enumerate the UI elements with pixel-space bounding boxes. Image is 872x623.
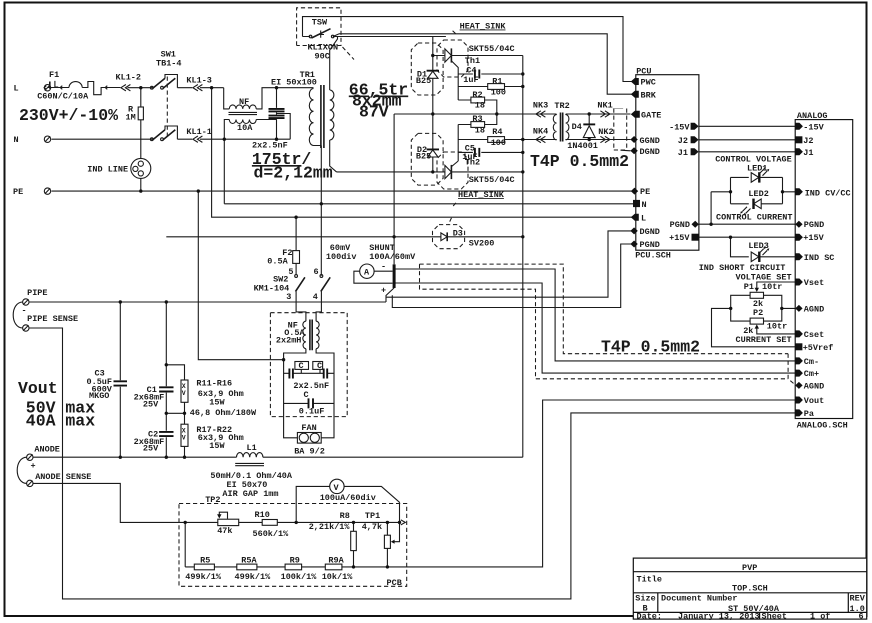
- svg-text:25V: 25V: [143, 443, 159, 453]
- svg-text:PIPE SENSE: PIPE SENSE: [27, 314, 78, 324]
- svg-text:NK3: NK3: [533, 101, 548, 111]
- svg-text:HEAT_SINK: HEAT_SINK: [458, 190, 505, 200]
- svg-text:CURRENT SET: CURRENT SET: [736, 335, 792, 345]
- svg-text:KL1-2: KL1-2: [116, 73, 142, 83]
- svg-text:PE: PE: [13, 187, 23, 197]
- svg-text:P1: P1: [744, 282, 754, 292]
- svg-text:IND CV/CC: IND CV/CC: [805, 188, 851, 198]
- svg-text:2x2mH: 2x2mH: [276, 336, 302, 346]
- svg-text:R2: R2: [472, 90, 482, 100]
- svg-text:BA 9/2: BA 9/2: [294, 447, 325, 457]
- svg-text:ANODE SENSE: ANODE SENSE: [35, 472, 91, 482]
- svg-text:TP2: TP2: [205, 495, 220, 505]
- svg-text:B25: B25: [416, 152, 431, 162]
- svg-text:R5A: R5A: [241, 555, 257, 565]
- svg-text:PE: PE: [640, 187, 650, 197]
- svg-text:ANALOG.SCH: ANALOG.SCH: [797, 421, 848, 431]
- svg-text:47k: 47k: [217, 526, 232, 536]
- svg-text:P2: P2: [753, 308, 763, 318]
- svg-text:1N4001: 1N4001: [567, 141, 598, 151]
- svg-text:J2: J2: [803, 136, 813, 146]
- svg-text:NK1: NK1: [597, 101, 612, 111]
- svg-text:10tr: 10tr: [767, 322, 787, 332]
- svg-text:V: V: [182, 435, 186, 442]
- svg-text:R10: R10: [255, 510, 270, 520]
- svg-text:R4: R4: [492, 127, 502, 137]
- svg-text:Pa: Pa: [804, 409, 814, 419]
- svg-text:R5: R5: [200, 555, 210, 565]
- svg-text:R9A: R9A: [328, 555, 344, 565]
- svg-text:-15V: -15V: [803, 122, 824, 132]
- svg-text:5: 5: [288, 267, 293, 277]
- svg-text:0.1uF: 0.1uF: [299, 407, 325, 417]
- svg-text:100uA/60div: 100uA/60div: [320, 493, 376, 503]
- svg-text:PCB: PCB: [387, 578, 402, 588]
- svg-text:V: V: [334, 483, 340, 493]
- svg-text:VOLTAGE SET: VOLTAGE SET: [736, 272, 792, 282]
- svg-text:Vout: Vout: [18, 379, 58, 398]
- svg-text:D4: D4: [572, 122, 582, 132]
- svg-text:REV: REV: [850, 594, 866, 604]
- svg-text:X: X: [182, 383, 186, 390]
- svg-text:+: +: [31, 461, 36, 471]
- svg-text:+15V: +15V: [669, 233, 690, 243]
- svg-text:CONTROL CURRENT: CONTROL CURRENT: [716, 212, 793, 222]
- svg-text:-: -: [22, 306, 27, 316]
- svg-text:SKT55/04C: SKT55/04C: [469, 44, 515, 54]
- svg-text:DGND: DGND: [640, 147, 660, 157]
- svg-text:KL1-3: KL1-3: [186, 76, 212, 86]
- svg-text:EI 50x100: EI 50x100: [271, 78, 317, 88]
- svg-text:__: __: [612, 101, 624, 111]
- svg-text:KM1-104: KM1-104: [254, 284, 290, 294]
- svg-text:IND SC: IND SC: [804, 253, 835, 263]
- svg-text:0.5A: 0.5A: [267, 256, 288, 266]
- svg-text:D3: D3: [453, 229, 463, 239]
- svg-text:DGND: DGND: [640, 227, 660, 237]
- svg-text:J1: J1: [803, 148, 813, 158]
- svg-text:KL1-1: KL1-1: [186, 127, 212, 137]
- svg-text:L1: L1: [247, 443, 257, 453]
- svg-text:NK2: NK2: [598, 127, 613, 137]
- svg-text:ANALOG: ANALOG: [797, 111, 828, 121]
- svg-text:X: X: [182, 428, 186, 435]
- svg-text:R3: R3: [472, 114, 482, 124]
- svg-text:N: N: [642, 200, 647, 210]
- svg-text:1uF: 1uF: [463, 75, 478, 85]
- svg-text:3: 3: [286, 292, 291, 302]
- svg-text:R1: R1: [492, 77, 502, 87]
- svg-text:25V: 25V: [143, 399, 159, 409]
- svg-text:d=2,12mm: d=2,12mm: [254, 164, 333, 183]
- svg-text:NK4: NK4: [533, 127, 548, 137]
- svg-text:ANODE: ANODE: [34, 445, 60, 455]
- svg-text:PGND: PGND: [804, 220, 824, 230]
- svg-text:LED3: LED3: [748, 241, 768, 251]
- svg-text:Document Number: Document Number: [661, 594, 738, 604]
- svg-text:GGND: GGND: [640, 136, 660, 146]
- svg-text:C: C: [317, 361, 322, 371]
- svg-text:PCU.SCH: PCU.SCH: [635, 251, 671, 261]
- svg-text:90C: 90C: [315, 52, 330, 62]
- svg-text:L: L: [14, 84, 19, 94]
- svg-text:TR2: TR2: [554, 101, 569, 111]
- svg-text:1uF: 1uF: [462, 152, 477, 162]
- svg-text:NF: NF: [239, 97, 249, 107]
- svg-text:FAN: FAN: [301, 423, 316, 433]
- svg-text:C60N/C/10A: C60N/C/10A: [37, 92, 89, 102]
- svg-text:499k/1%: 499k/1%: [185, 572, 222, 582]
- svg-text:HEAT_SINK: HEAT_SINK: [460, 22, 507, 32]
- svg-text:100: 100: [491, 88, 506, 98]
- svg-text:100div: 100div: [326, 252, 357, 262]
- svg-text:TSW: TSW: [312, 18, 328, 28]
- svg-text:C: C: [299, 361, 304, 371]
- svg-text:R8: R8: [340, 511, 350, 521]
- svg-text:2x2.5nF: 2x2.5nF: [293, 381, 329, 391]
- svg-text:18: 18: [475, 101, 485, 111]
- svg-text:SV200: SV200: [469, 239, 495, 249]
- svg-text:87V: 87V: [359, 103, 389, 122]
- svg-text:15W: 15W: [209, 398, 225, 408]
- svg-text:10k/1%: 10k/1%: [322, 572, 354, 582]
- svg-text:Cset: Cset: [804, 330, 824, 340]
- svg-text:AGND: AGND: [804, 381, 824, 391]
- svg-text:4: 4: [313, 292, 318, 302]
- svg-text:Vout: Vout: [804, 396, 824, 406]
- svg-text:-: -: [381, 262, 386, 272]
- svg-text:F1: F1: [49, 70, 59, 80]
- svg-text:J1: J1: [678, 148, 688, 158]
- svg-text:Sheet: Sheet: [762, 611, 788, 621]
- svg-text:PGND: PGND: [670, 220, 690, 230]
- svg-text:PVP: PVP: [742, 563, 757, 573]
- svg-text:230V+/-10%: 230V+/-10%: [19, 106, 118, 125]
- svg-text:2x2.5nF: 2x2.5nF: [252, 141, 288, 151]
- svg-text:January 13, 2013: January 13, 2013: [678, 611, 760, 621]
- svg-text:2,21k/1%: 2,21k/1%: [309, 522, 351, 532]
- svg-text:TB1-4: TB1-4: [156, 59, 182, 69]
- svg-text:Cm-: Cm-: [804, 357, 819, 367]
- svg-text:-15V: -15V: [669, 122, 690, 132]
- svg-text:Vset: Vset: [804, 278, 824, 288]
- svg-text:18: 18: [475, 126, 485, 136]
- svg-text:N: N: [14, 135, 19, 145]
- svg-text:Th1: Th1: [465, 56, 480, 66]
- svg-text:R9: R9: [290, 555, 300, 565]
- svg-text:PWC: PWC: [641, 78, 656, 88]
- svg-text:BRK: BRK: [641, 91, 657, 101]
- svg-text:B25: B25: [416, 76, 431, 86]
- svg-text:Title: Title: [637, 574, 663, 584]
- svg-text:4,7k: 4,7k: [362, 522, 382, 532]
- svg-text:Date:: Date:: [637, 611, 663, 621]
- svg-text:V: V: [182, 390, 186, 397]
- svg-text:560k/1%: 560k/1%: [253, 529, 290, 539]
- svg-text:TOP.SCH: TOP.SCH: [732, 583, 768, 593]
- svg-text:T4P 0.5mm2: T4P 0.5mm2: [530, 152, 629, 171]
- svg-text:LED1: LED1: [747, 164, 767, 174]
- svg-text:IND LINE: IND LINE: [87, 165, 128, 175]
- svg-text:AGND: AGND: [804, 304, 824, 314]
- svg-text:T4P 0.5mm2: T4P 0.5mm2: [601, 338, 700, 357]
- svg-text:A: A: [364, 268, 370, 278]
- svg-text:R11-R16: R11-R16: [196, 378, 232, 388]
- svg-text:TP1: TP1: [365, 511, 380, 521]
- svg-text:100k/1%: 100k/1%: [281, 572, 318, 582]
- svg-text:LED2: LED2: [748, 189, 768, 199]
- svg-text:AIR GAP 1mm: AIR GAP 1mm: [222, 489, 278, 499]
- svg-text:100: 100: [491, 138, 506, 148]
- svg-text:15W: 15W: [209, 441, 225, 451]
- svg-text:C4: C4: [466, 66, 476, 76]
- svg-text:IND SHORT CIRCUIT: IND SHORT CIRCUIT: [699, 263, 786, 273]
- svg-text:+5Vref: +5Vref: [803, 343, 834, 353]
- svg-text:10A: 10A: [237, 123, 253, 133]
- svg-text:C: C: [304, 390, 309, 400]
- svg-text:Cm+: Cm+: [804, 369, 819, 379]
- svg-text:499k/1%: 499k/1%: [235, 572, 272, 582]
- svg-text:1 of: 1 of: [810, 611, 830, 621]
- svg-text:+15V: +15V: [803, 233, 824, 243]
- svg-text:+: +: [381, 286, 386, 296]
- svg-text:100A/60mV: 100A/60mV: [369, 252, 416, 262]
- svg-text:40A max: 40A max: [26, 412, 95, 431]
- svg-text:46,8 Ohm/180W: 46,8 Ohm/180W: [190, 408, 257, 418]
- svg-text:PIPE: PIPE: [27, 288, 47, 298]
- svg-text:SKT55/04C: SKT55/04C: [469, 175, 515, 185]
- svg-text:GATE: GATE: [641, 111, 661, 121]
- svg-text:6: 6: [314, 267, 319, 277]
- svg-text:J2: J2: [678, 136, 688, 146]
- svg-text:6: 6: [859, 611, 864, 621]
- svg-text:1M: 1M: [126, 113, 136, 123]
- svg-text:Size: Size: [635, 594, 655, 604]
- svg-text:10tr: 10tr: [762, 282, 782, 292]
- svg-text:MKGO: MKGO: [89, 391, 109, 401]
- svg-text:L: L: [641, 213, 646, 223]
- svg-text:PCU: PCU: [636, 67, 651, 77]
- svg-text:PGND: PGND: [640, 240, 660, 250]
